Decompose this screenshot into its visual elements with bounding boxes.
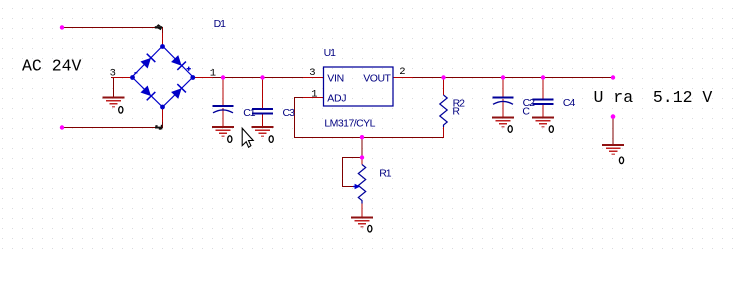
svg-text:VIN: VIN: [327, 73, 344, 85]
svg-text:LM317/CYL: LM317/CYL: [324, 118, 375, 130]
svg-text:D1: D1: [214, 18, 227, 30]
svg-text:C1: C1: [243, 107, 256, 119]
svg-text:ADJ: ADJ: [327, 93, 346, 105]
svg-text:R1: R1: [379, 168, 392, 180]
svg-text:VOUT: VOUT: [363, 73, 391, 85]
svg-text:U ra 5.12 V: U ra 5.12 V: [594, 88, 713, 107]
svg-text:C4: C4: [563, 97, 576, 109]
svg-text:R: R: [452, 105, 460, 117]
svg-text:2: 2: [399, 66, 405, 78]
svg-text:1: 1: [311, 88, 317, 100]
svg-text:1: 1: [210, 68, 216, 80]
svg-text:C3: C3: [283, 107, 296, 119]
svg-text:C: C: [522, 106, 530, 118]
svg-text:AC 24V: AC 24V: [22, 57, 82, 76]
svg-text:U1: U1: [324, 47, 337, 59]
svg-text:3: 3: [110, 68, 116, 80]
svg-text:3: 3: [309, 67, 315, 79]
